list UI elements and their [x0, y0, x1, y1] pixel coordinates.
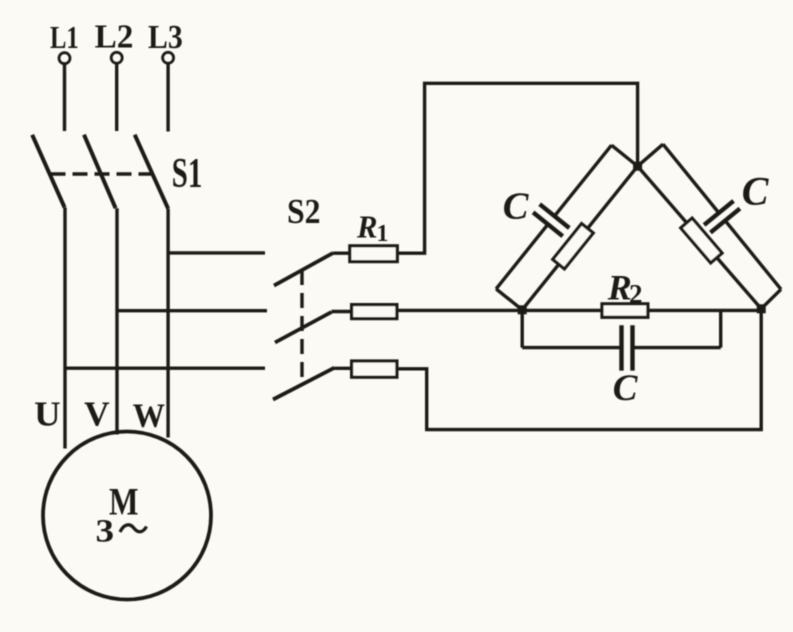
svg-text:S2: S2 [287, 192, 321, 231]
svg-text:W: W [133, 398, 165, 435]
svg-text:1: 1 [377, 221, 389, 247]
svg-text:L2: L2 [95, 19, 134, 56]
svg-text:R: R [356, 209, 377, 245]
svg-text:U: U [34, 394, 61, 433]
svg-text:3: 3 [96, 514, 115, 550]
svg-text:L1: L1 [50, 19, 79, 55]
svg-text:C: C [613, 368, 639, 409]
svg-text:2: 2 [629, 279, 643, 309]
svg-text:S1: S1 [172, 151, 203, 197]
svg-text:L3: L3 [148, 19, 183, 56]
svg-text:C: C [503, 185, 530, 227]
svg-text:V: V [84, 394, 110, 433]
svg-text:C: C [742, 168, 770, 213]
